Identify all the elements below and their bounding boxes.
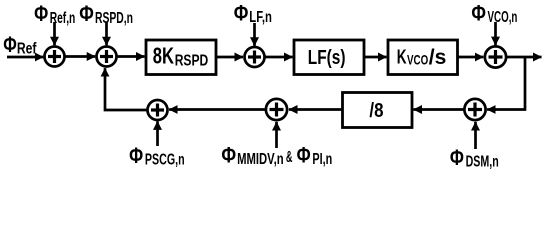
wire PhiLF,n down arrow into S3 — [253, 23, 256, 46]
node PhiDSM,n label — [450, 145, 499, 171]
svg-text:Φ: Φ — [3, 32, 17, 57]
wire S7 to S6 — [169, 108, 265, 111]
node PhiRef input label — [3, 32, 37, 57]
svg-text:RSPD: RSPD — [175, 53, 209, 70]
summer S2 — [97, 47, 117, 67]
wire input arrow into S1 — [7, 56, 43, 59]
svg-text:Φ: Φ — [234, 0, 249, 25]
wire PhiVCO,n down arrow into S4 — [494, 22, 497, 45]
svg-text:Ref: Ref — [17, 40, 37, 57]
node PhiMMIDV,n and PhiPI,n label — [221, 142, 332, 168]
svg-text:Φ: Φ — [34, 1, 48, 26]
wire S6 feedback to S2 bottom — [105, 68, 147, 110]
svg-text:PSCG,n: PSCG,n — [145, 151, 185, 168]
svg-text:MMIDV,n: MMIDV,n — [237, 151, 284, 168]
svg-text:PI,n: PI,n — [312, 151, 332, 168]
block KVCO/s — [388, 40, 458, 75]
node PhiVCO,n label — [471, 0, 517, 26]
svg-text:Φ: Φ — [450, 145, 464, 170]
summer S4 — [485, 46, 506, 67]
wire PhiMMIDV up arrow into S7 — [275, 122, 278, 148]
svg-text:VCO,n: VCO,n — [488, 9, 518, 26]
block /8 divider — [343, 93, 413, 128]
wire PhiRSPD,n down arrow into S2 — [105, 22, 108, 45]
svg-text:DSM,n: DSM,n — [466, 154, 499, 170]
svg-text:K: K — [397, 46, 407, 69]
wire S3 to block LF(s) — [265, 56, 293, 59]
wire S1 to S2 — [65, 55, 95, 58]
node PhiLF,n label — [234, 0, 272, 26]
wire PhiPSCG,n up arrow into S6 — [156, 121, 159, 146]
block LF(s) — [294, 40, 364, 75]
summer S7 — [266, 99, 287, 120]
svg-text:VCO: VCO — [407, 52, 428, 68]
wire S5 to block /8 — [414, 108, 464, 111]
summer S5 — [464, 99, 485, 120]
summer S3 — [245, 47, 265, 67]
svg-text:/s: /s — [429, 46, 447, 69]
wire output branch down to feedback row — [487, 57, 525, 110]
svg-text:Φ: Φ — [297, 142, 311, 167]
svg-text:8K: 8K — [153, 42, 174, 68]
wire LF(s) to block KVCO/s — [364, 56, 387, 59]
summer S6 — [148, 100, 168, 120]
wire S4 to output — [507, 56, 542, 59]
svg-text:Φ: Φ — [221, 142, 236, 167]
svg-text:LF,n: LF,n — [249, 9, 272, 26]
wire 8KRSPD to S3 — [216, 56, 243, 59]
svg-text:Φ: Φ — [79, 1, 94, 26]
block 8KRSPD — [146, 40, 216, 75]
wire PhiDSM,n up arrow into S5 — [474, 122, 477, 149]
wire PhiRef,n down arrow into S1 — [53, 22, 56, 45]
svg-text:Φ: Φ — [129, 143, 143, 168]
wire KVCO/s to S4 — [458, 56, 484, 59]
wire /8 to S7 — [289, 108, 343, 111]
node PhiRef,n label — [34, 1, 75, 27]
svg-text:&: & — [286, 149, 293, 166]
svg-text:/8: /8 — [369, 99, 383, 122]
node PhiRSPD,n label — [79, 1, 133, 27]
svg-text:LF(s): LF(s) — [308, 46, 346, 69]
node PhiPSCG,n label — [129, 143, 184, 169]
summer S1 — [45, 47, 65, 67]
wire S2 to block 8KRSPD — [117, 55, 145, 58]
svg-text:Φ: Φ — [471, 0, 486, 25]
svg-text:RSPD,n: RSPD,n — [95, 10, 133, 27]
